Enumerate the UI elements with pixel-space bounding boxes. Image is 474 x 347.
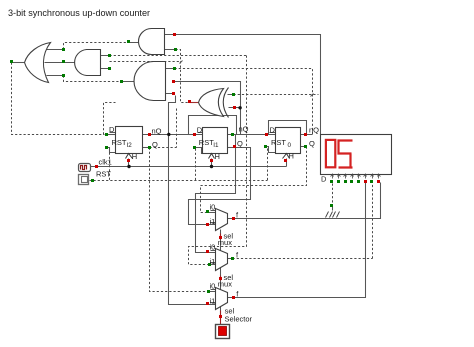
svg-text:I1: I1 xyxy=(213,142,219,149)
svg-text:i1: i1 xyxy=(210,257,216,266)
svg-text:D: D xyxy=(321,174,327,183)
svg-text:H: H xyxy=(132,152,137,161)
svg-text:i0: i0 xyxy=(210,203,216,212)
svg-text:D: D xyxy=(270,126,276,135)
svg-text:H: H xyxy=(289,151,294,160)
svg-text:0: 0 xyxy=(288,142,292,149)
svg-text:Q: Q xyxy=(309,139,315,148)
svg-text:i0: i0 xyxy=(210,282,216,291)
svg-text:D: D xyxy=(197,126,203,135)
svg-text:H: H xyxy=(215,152,220,161)
svg-text:mux: mux xyxy=(218,280,232,289)
svg-text:i1: i1 xyxy=(210,217,216,226)
svg-text:RST: RST xyxy=(96,169,111,178)
svg-text:RST: RST xyxy=(271,138,286,147)
svg-text:RST: RST xyxy=(199,138,214,147)
svg-text:D: D xyxy=(109,125,115,134)
svg-text:nQ: nQ xyxy=(239,125,249,134)
svg-text:i1: i1 xyxy=(210,297,216,306)
svg-text:Q: Q xyxy=(237,139,243,148)
svg-text:nQ: nQ xyxy=(309,126,319,135)
svg-text:Q: Q xyxy=(152,140,158,149)
svg-text:RST: RST xyxy=(112,138,127,147)
svg-text:clk1: clk1 xyxy=(99,158,112,167)
svg-text:3-bit synchronous up-down coun: 3-bit synchronous up-down counter xyxy=(8,8,150,18)
svg-text:mux: mux xyxy=(218,238,232,247)
svg-text:nQ: nQ xyxy=(152,127,162,136)
svg-text:Selector: Selector xyxy=(225,315,253,324)
svg-text:i0: i0 xyxy=(210,243,216,252)
svg-text:I2: I2 xyxy=(127,142,133,149)
